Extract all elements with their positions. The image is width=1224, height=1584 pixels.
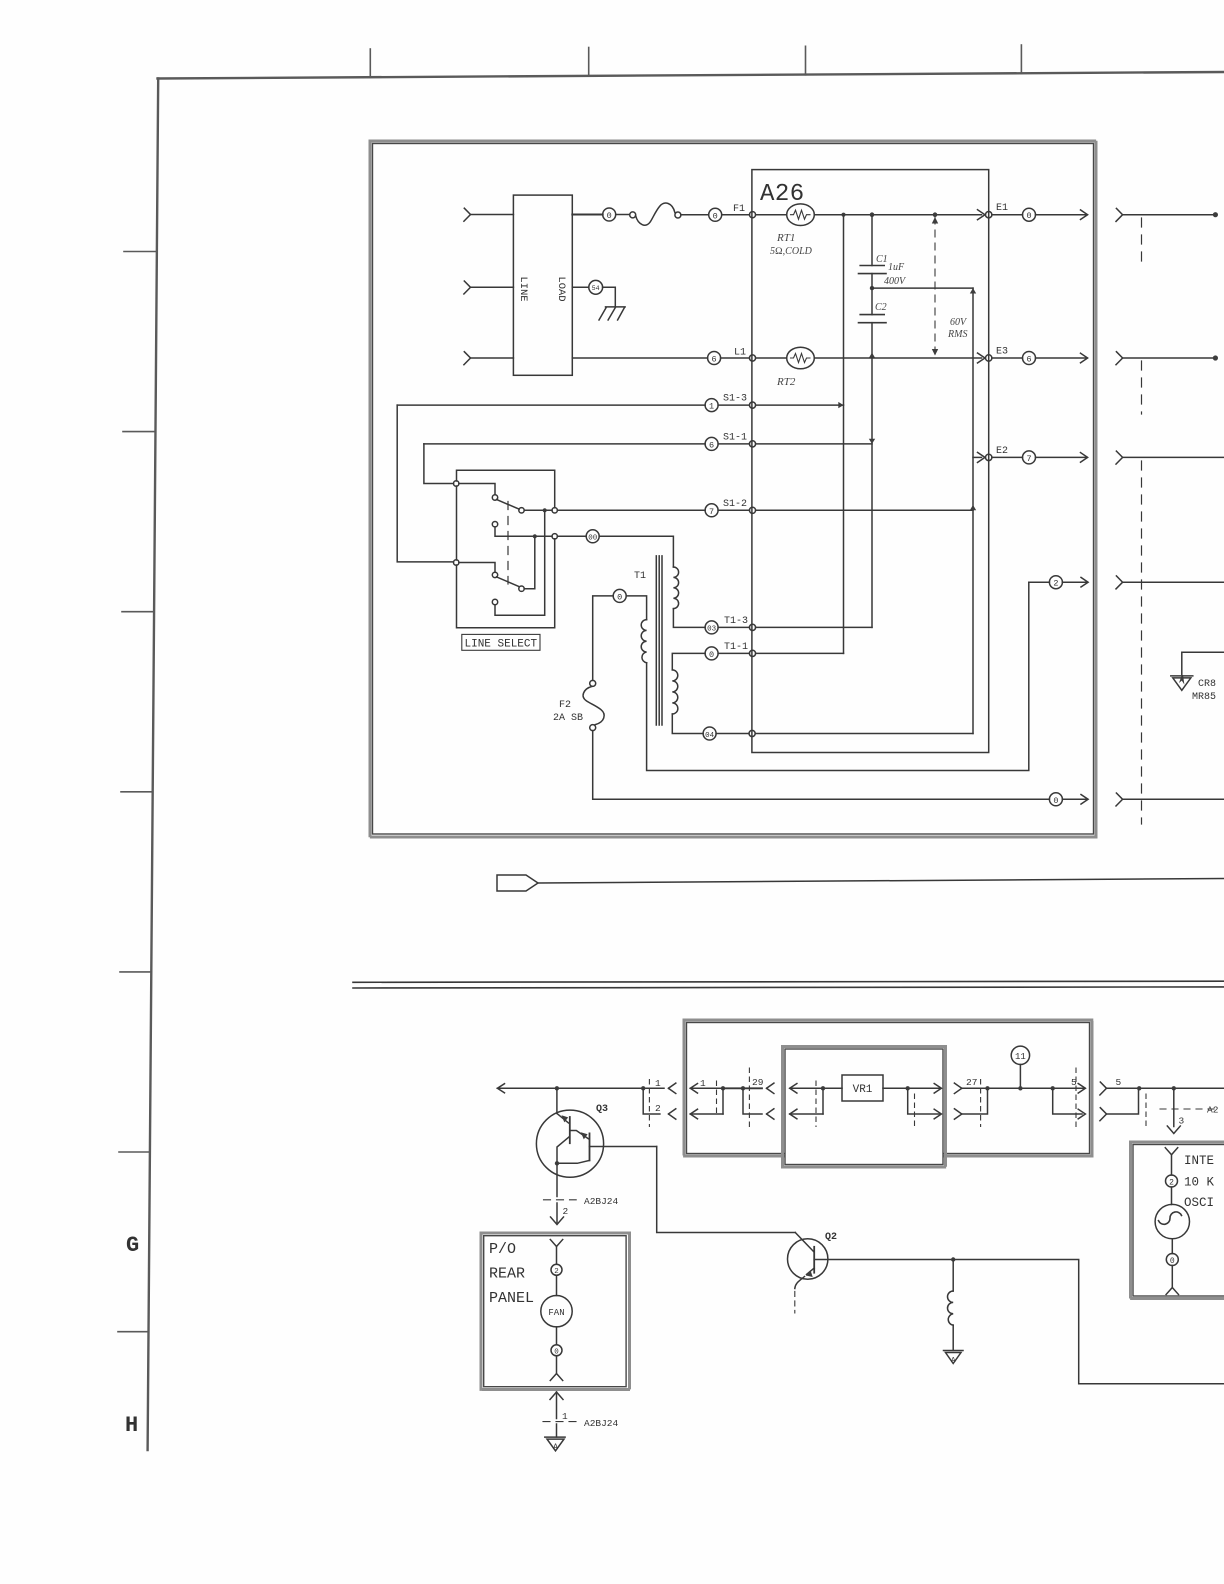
svg-text:A2BJ24: A2BJ24	[584, 1196, 619, 1207]
svg-text:400V: 400V	[884, 276, 907, 287]
wire	[556, 1327, 558, 1345]
thermistor RT2	[787, 347, 815, 369]
LINE/LOAD filter box	[513, 195, 572, 375]
A26 inner module box	[752, 170, 989, 753]
svg-text:OSCI: OSCI	[1184, 1196, 1214, 1210]
node junction dot	[870, 286, 874, 290]
terminal circle 2 (aux out)	[1049, 576, 1062, 589]
wire L1 row	[572, 357, 707, 359]
svg-text:VR1: VR1	[853, 1084, 873, 1096]
line input entry arrow 1	[464, 208, 471, 221]
wire	[871, 274, 873, 289]
wire T1-1 inside to riser	[756, 652, 844, 654]
wire	[471, 286, 514, 288]
node T1-1 terminal	[749, 650, 755, 656]
svg-text:LOAD: LOAD	[555, 276, 567, 301]
connector A2BJ24 pin 2 (Q3 emitter)	[544, 1199, 577, 1201]
wire	[756, 214, 787, 216]
svg-text:T1-3: T1-3	[724, 616, 748, 627]
connector mate dashed	[648, 1080, 650, 1127]
svg-text:03: 03	[707, 626, 717, 634]
net riser x=973 (C mid to E2, S1-2, T1 sec bottom)	[972, 288, 974, 733]
collector wire	[814, 1259, 953, 1261]
section divider double rule	[353, 981, 1224, 982]
terminal circle 6 (L1)	[708, 352, 721, 365]
wire	[556, 1356, 558, 1373]
wire	[716, 733, 749, 735]
capacitor C2	[860, 314, 884, 316]
node junction dot	[741, 1086, 745, 1090]
node junction dot	[1018, 1086, 1022, 1090]
transformer T1 core	[655, 556, 657, 725]
svg-text:C1: C1	[876, 254, 888, 265]
ground chassis A (choke)	[944, 1350, 964, 1352]
terminal circle 2 (osc)	[1166, 1175, 1178, 1187]
wire	[616, 214, 630, 216]
line input entry arrow 3	[464, 352, 471, 365]
svg-text:7: 7	[1026, 454, 1031, 464]
wire	[599, 536, 673, 567]
pin arrows out of VR1 row2	[934, 1109, 941, 1119]
terminal circle 04	[703, 727, 716, 740]
connector A2BJ24 pin 1	[543, 1421, 576, 1423]
svg-text:S1-2: S1-2	[723, 499, 747, 510]
node terminal (sec bottom)	[749, 730, 755, 736]
svg-text:0: 0	[1026, 211, 1031, 221]
svg-text:L1: L1	[734, 348, 746, 359]
svg-text:RT2: RT2	[776, 376, 796, 388]
wire E2 row	[973, 456, 982, 458]
svg-text:0: 0	[607, 211, 612, 221]
exit Y bottom of osc box	[1166, 1288, 1178, 1295]
svg-text:1: 1	[562, 1411, 568, 1422]
wire	[992, 214, 1023, 216]
thermistor RT1	[787, 204, 815, 226]
terminal circle 0 (T1-1)	[705, 647, 718, 660]
connector mate dashed	[716, 1081, 718, 1114]
node junction dot	[841, 213, 845, 217]
wire primary top to fuse F2	[593, 596, 614, 681]
svg-text:S1-1: S1-1	[723, 432, 747, 443]
wire entry Y into rear panel box	[550, 1240, 562, 1247]
diode CR8 to chassis	[1171, 675, 1193, 677]
transistor Q2	[788, 1239, 828, 1279]
node F1 terminal on A26 board edge	[749, 212, 755, 218]
wire	[718, 404, 749, 406]
svg-text:04: 04	[705, 732, 715, 740]
pin arrows inside box row1	[690, 1084, 697, 1094]
wire dashed stub below E1	[1141, 218, 1143, 268]
receptacle contacts at VR1 edge	[767, 1083, 774, 1093]
wire with exit arrow 2	[1062, 581, 1087, 583]
wire E3 row	[814, 357, 981, 359]
svg-text:1: 1	[700, 1078, 706, 1089]
entry symbols outside right row1	[1100, 1082, 1107, 1095]
transformer T1 primary	[626, 596, 646, 620]
net riser x=872 (E3 to S1-1 / T1-3)	[871, 358, 873, 627]
node junction dot	[985, 1086, 989, 1090]
wire	[992, 357, 1023, 359]
wire	[871, 288, 873, 315]
receptacle contact row1	[668, 1083, 675, 1093]
terminal circle 0 (primary top)	[613, 589, 626, 602]
entry Y into osc box	[1165, 1148, 1177, 1155]
svg-text:5: 5	[1116, 1077, 1122, 1088]
wire rail	[723, 1087, 762, 1089]
wire F2 to 0 out row	[593, 731, 1050, 800]
node junction dot	[933, 212, 938, 217]
switch S1 gang link (dashed)	[507, 502, 509, 585]
A26 assembly outer box (stippled shadow border)	[370, 141, 1096, 837]
svg-text:FAN: FAN	[548, 1308, 564, 1318]
wire S1-3 row	[397, 404, 705, 406]
E2 exit arrow	[978, 452, 986, 462]
svg-text:3: 3	[1179, 1116, 1185, 1127]
svg-text:1uF: 1uF	[888, 262, 905, 273]
wire common row to transformer	[557, 535, 586, 537]
svg-text:LINE SELECT: LINE SELECT	[465, 639, 538, 651]
node E1 terminal	[986, 212, 992, 218]
node junction dot	[543, 508, 547, 512]
svg-text:0: 0	[713, 211, 718, 221]
svg-text:10 K: 10 K	[1184, 1176, 1215, 1190]
wire Q2 collector routing	[953, 1260, 1224, 1384]
svg-text:MR85: MR85	[1192, 692, 1216, 703]
node E3 terminal	[986, 355, 992, 361]
svg-text:RMS: RMS	[947, 329, 967, 340]
wire	[992, 456, 1023, 458]
net riser x=843.5 (E1 to S1-3 / T1-1)	[843, 215, 845, 654]
svg-text:0: 0	[1170, 1257, 1175, 1266]
wire	[756, 443, 872, 445]
VR1 module box (stippled)	[783, 1047, 946, 1168]
svg-text:A: A	[553, 1443, 558, 1452]
connector mate dashed	[914, 1094, 916, 1127]
svg-text:Q3: Q3	[596, 1104, 608, 1115]
right region entry E3 row	[1116, 352, 1123, 365]
return arrow below box	[550, 1392, 563, 1400]
node junction dot	[721, 1086, 725, 1090]
svg-text:2A SB: 2A SB	[553, 713, 583, 724]
terminal circle 1 (S1-3)	[705, 399, 718, 412]
wire with exit arrow E3	[1036, 357, 1088, 359]
terminal circle 7 (S1-2)	[705, 504, 718, 517]
wire	[871, 323, 873, 356]
connector mate dashed 5	[1075, 1068, 1077, 1127]
node junction dot (Q3 collector)	[555, 1086, 559, 1090]
svg-text:S1-3: S1-3	[723, 394, 747, 405]
oscillator symbol	[1155, 1204, 1189, 1238]
transistor Q3 (darlington)	[536, 1110, 603, 1177]
svg-text:54: 54	[592, 285, 600, 292]
terminal circle 0 (E1)	[1023, 208, 1036, 221]
wire	[1171, 1239, 1173, 1254]
svg-text:1: 1	[709, 402, 714, 412]
svg-text:0: 0	[709, 650, 714, 660]
wire	[556, 1275, 558, 1295]
ground (chassis hatch)	[606, 306, 626, 308]
line input entry arrow 2	[464, 281, 471, 294]
wire E1 row	[814, 214, 981, 216]
wire rail	[962, 1087, 1085, 1089]
node junction dot	[1172, 1086, 1176, 1090]
right region entry E2 row	[1116, 451, 1123, 464]
wire	[572, 214, 602, 216]
inductor choke	[952, 1260, 954, 1292]
terminal circle 0 (after load box)	[603, 208, 616, 221]
jumper bracket 5 col	[1053, 1088, 1082, 1114]
switch S1 pole 2	[459, 563, 495, 573]
svg-text:RT1: RT1	[776, 232, 795, 244]
entry symbols outside right row2	[1100, 1108, 1107, 1121]
node junction dot (Q2 collector)	[951, 1257, 955, 1261]
E3 exit arrow	[978, 353, 986, 363]
svg-text:T1: T1	[634, 571, 646, 582]
svg-text:PANEL: PANEL	[489, 1290, 534, 1307]
node junction dot	[821, 1086, 825, 1090]
terminal circle 2 (fan)	[551, 1264, 562, 1275]
wire	[718, 626, 749, 628]
svg-text:C2: C2	[875, 302, 887, 313]
node S1-2 terminal	[749, 507, 755, 513]
node junction dot	[1051, 1086, 1055, 1090]
pin arrows inside VR1 row2	[790, 1109, 797, 1119]
regulator module outer box (stippled)	[684, 1020, 1092, 1156]
wire main rail left end arrow	[497, 1084, 504, 1093]
wire dashed stub below E3	[1141, 361, 1143, 414]
svg-text:G: G	[126, 1233, 139, 1258]
node switch output S1-2	[552, 508, 557, 513]
pin arrows at box right edge row1	[1078, 1084, 1085, 1094]
terminal circle 7 (E2)	[1023, 451, 1036, 464]
wire with exit arrow E2	[1036, 456, 1088, 458]
svg-text:0: 0	[1053, 796, 1058, 806]
fuse F1	[630, 212, 636, 218]
wire	[718, 443, 749, 445]
wire S1-1 row	[424, 443, 705, 445]
svg-text:E1: E1	[996, 203, 1008, 214]
net flag pointer	[497, 875, 538, 891]
wire	[721, 357, 750, 359]
wire with exit arrow E1	[1036, 214, 1088, 216]
jumper bracket	[822, 1088, 824, 1114]
svg-text:60V: 60V	[950, 317, 968, 328]
node L1 terminal on A26 board edge	[749, 355, 755, 361]
svg-text:CR8: CR8	[1198, 679, 1216, 690]
switch S1 pole 1	[459, 484, 495, 495]
wire T1-1 row	[672, 653, 705, 670]
wire S1-1 left routing	[424, 444, 454, 484]
wire Q3 base to Q2	[657, 1147, 796, 1233]
wire inside to riser	[755, 733, 973, 735]
wire primary bottom to (2) out row	[647, 582, 1029, 770]
terminal circle 00	[586, 530, 599, 543]
transformer T1 secondary upper	[673, 567, 678, 609]
connector 3 drop to oscillator	[1173, 1088, 1175, 1126]
svg-text:2: 2	[655, 1103, 661, 1114]
wire with exit arrow bottom 0	[1062, 798, 1087, 800]
svg-text:A2BJ24: A2BJ24	[584, 1418, 619, 1429]
wire	[471, 214, 514, 216]
wire CR8 branch	[1182, 652, 1224, 674]
capacitor C1 branch wire	[871, 215, 873, 266]
svg-text:H: H	[125, 1413, 138, 1438]
svg-text:00: 00	[588, 535, 598, 543]
svg-text:5Ω,COLD: 5Ω,COLD	[770, 246, 813, 257]
connector mate dashed outside	[1145, 1094, 1147, 1127]
node junction dot (conn jumper)	[641, 1086, 645, 1090]
test point circle 11	[1011, 1046, 1029, 1064]
switch S1 outer routing	[457, 470, 555, 507]
node S1-3 terminal	[749, 402, 755, 408]
emitter with arrow	[807, 1268, 815, 1275]
svg-text:1: 1	[655, 1078, 661, 1089]
node S1-1 terminal	[749, 441, 755, 447]
pin arrows inside box row2	[690, 1109, 697, 1119]
capacitor C1	[860, 265, 884, 267]
terminal circle 0 (osc)	[1166, 1254, 1178, 1266]
jumper bracket 27 col	[962, 1088, 988, 1114]
pin arrows out of VR1 row1	[934, 1084, 941, 1094]
node junction dot	[870, 212, 875, 217]
connector mate dashed 29	[748, 1068, 750, 1127]
svg-text:11: 11	[1015, 1052, 1026, 1062]
connector jumper outside box	[643, 1088, 660, 1114]
svg-text:INTE: INTE	[1184, 1154, 1214, 1168]
wire	[1171, 1266, 1173, 1288]
60V RMS measure line	[934, 217, 936, 356]
wire	[722, 214, 750, 216]
svg-text:6: 6	[1026, 355, 1031, 365]
wire	[718, 652, 749, 654]
wire	[718, 509, 749, 511]
node E2 terminal	[986, 454, 992, 460]
wire T1-3 inside to riser	[756, 626, 872, 628]
svg-text:29: 29	[752, 1077, 764, 1088]
receptacle contact row2	[668, 1109, 675, 1119]
connector mate dashed	[815, 1081, 817, 1127]
svg-text:2: 2	[1053, 579, 1058, 589]
right region entry aux 2 row	[1116, 576, 1123, 589]
right region entry bottom 0 row	[1116, 793, 1123, 806]
wire	[603, 287, 616, 307]
wire	[883, 1087, 941, 1089]
svg-text:7: 7	[709, 507, 714, 517]
wire collector down	[556, 1088, 558, 1113]
terminal circle 0 (bottom out)	[1049, 793, 1062, 806]
svg-text:E2: E2	[996, 446, 1008, 457]
svg-text:0: 0	[617, 592, 622, 602]
wire S1-2 row	[557, 509, 705, 511]
svg-text:F1: F1	[733, 204, 745, 215]
fuse F2	[590, 680, 596, 686]
regulator VR1	[842, 1075, 883, 1101]
terminal circle 0 (fan)	[551, 1345, 562, 1356]
svg-text:P/O: P/O	[489, 1241, 516, 1258]
svg-text:A: A	[951, 1357, 956, 1365]
svg-text:Q2: Q2	[825, 1232, 837, 1243]
terminal circle 6 (E3)	[1023, 352, 1036, 365]
svg-text:27: 27	[966, 1077, 977, 1088]
svg-text:2: 2	[563, 1206, 569, 1217]
motor FAN	[541, 1296, 572, 1327]
load box ground lead circled terminal	[572, 286, 589, 288]
wire	[471, 357, 514, 359]
wire (C1/C2 midpoint to E2 riser)	[872, 287, 973, 289]
svg-text:2: 2	[1169, 1178, 1174, 1187]
ground chassis A (fan return)	[545, 1436, 565, 1438]
svg-text:E3: E3	[996, 347, 1008, 358]
node junction dot	[906, 1086, 910, 1090]
exit Y bottom of rear panel box	[550, 1374, 562, 1381]
connector mate dashed 27	[980, 1080, 982, 1127]
wire	[681, 214, 709, 216]
wire	[1019, 1065, 1021, 1089]
pin arrows inside VR1 row1	[790, 1084, 797, 1094]
wire S1-2 inside to riser	[756, 509, 973, 511]
wire long dashed below E2	[1141, 461, 1143, 824]
plug contacts right of VR1	[954, 1083, 961, 1093]
wire	[1029, 581, 1050, 583]
node junction dot	[533, 534, 537, 538]
svg-text:LINE: LINE	[517, 276, 529, 301]
wire S1-3 left routing	[397, 405, 453, 562]
wire	[1171, 1187, 1173, 1205]
wire	[756, 404, 844, 406]
svg-text:A2: A2	[1207, 1105, 1219, 1116]
LINE SELECT label box	[462, 634, 540, 650]
jumper bracket 29 col	[743, 1088, 762, 1114]
svg-text:F2: F2	[559, 700, 571, 711]
transformer T1 secondary lower	[672, 670, 678, 714]
jumper outside	[1107, 1088, 1139, 1114]
terminal circle 6 (S1-1)	[705, 437, 718, 450]
P/O REAR PANEL box (stippled)	[481, 1233, 630, 1390]
jumper bracket	[722, 1088, 724, 1114]
jumper bracket right of VR1	[908, 1088, 939, 1114]
wire E3 row left	[756, 357, 787, 359]
terminal circle 0 (fuse out)	[709, 208, 722, 221]
terminal circle 03	[705, 621, 718, 634]
node switch output common	[552, 534, 557, 539]
svg-text:6: 6	[712, 355, 717, 365]
pin arrows at box right edge row2	[1078, 1109, 1085, 1119]
right region entry E1 row	[1116, 208, 1123, 221]
svg-text:REAR: REAR	[489, 1266, 525, 1283]
node junction dot	[1137, 1086, 1141, 1090]
wire secondary bottom row	[672, 714, 703, 734]
node switch input contact lower	[454, 560, 459, 565]
node T1-3 terminal	[749, 624, 755, 630]
node switch input contact upper	[454, 481, 459, 486]
node junction mark	[869, 353, 875, 358]
svg-text:6: 6	[709, 440, 714, 450]
wire	[673, 609, 705, 628]
svg-text:T1-1: T1-1	[724, 642, 748, 653]
E1 exit arrow	[978, 210, 986, 220]
INT 10 OSC box (stippled)	[1131, 1142, 1224, 1299]
